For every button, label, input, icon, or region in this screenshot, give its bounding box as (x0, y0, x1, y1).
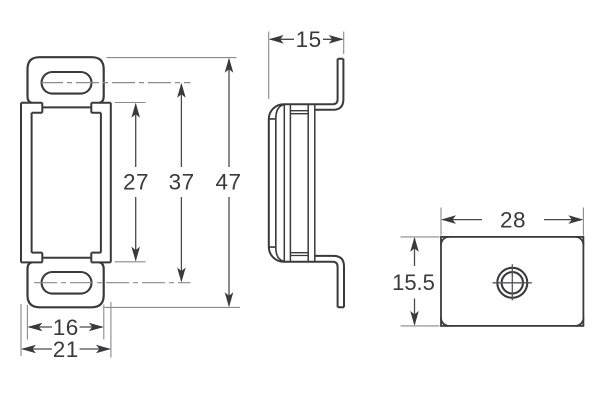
dimension 15.5 (414, 239, 416, 325)
extension line top (47) (107, 57, 237, 59)
extension lines 28 (441, 208, 583, 236)
dimension 16 (29, 326, 102, 328)
extension lines 21 (21, 302, 111, 358)
top tab slot (42, 72, 92, 94)
extension segment body bottom (27) (115, 261, 146, 263)
hole inner circle (502, 272, 523, 293)
extension line bottom (47) (105, 306, 241, 308)
dimension 28 (443, 219, 582, 221)
svg-text:27: 27 (123, 170, 149, 195)
dimension 21 (23, 348, 110, 350)
mounting plate top tab (315, 59, 344, 110)
step lines bottom (290, 253, 308, 256)
dimension 27 (135, 105, 137, 260)
dimension 15 (270, 38, 342, 40)
top mounting tab (28, 57, 104, 103)
extension segment body top (27) (115, 102, 146, 104)
body outline (21, 103, 111, 263)
case inner wrap line (269, 105, 283, 261)
mounting plate bottom tab (315, 256, 344, 307)
extension lines 15.5 (401, 237, 440, 326)
step lines top (290, 111, 308, 114)
dimension 37 (180, 85, 182, 281)
inner strip B (308, 104, 315, 262)
hole crosshair (493, 264, 532, 300)
extension lines 16 (27, 305, 103, 340)
plate outline (441, 237, 583, 326)
bottom tab slot (42, 272, 92, 294)
svg-text:37: 37 (169, 170, 195, 195)
svg-text:15.5: 15.5 (392, 270, 435, 295)
svg-text:21: 21 (53, 337, 79, 362)
bottom mounting tab (28, 262, 104, 307)
plate corner arcs (441, 237, 583, 326)
extension lines 15 (269, 32, 344, 100)
case outer contour (269, 104, 333, 262)
svg-text:47: 47 (215, 170, 241, 195)
inner strip A (284, 104, 290, 262)
svg-text:15: 15 (296, 27, 322, 52)
svg-text:28: 28 (500, 207, 526, 232)
bottom slot centerline (34, 282, 191, 284)
hole outer circle (497, 268, 527, 298)
dimension 47 (228, 60, 230, 306)
top slot centerline (40, 82, 191, 84)
